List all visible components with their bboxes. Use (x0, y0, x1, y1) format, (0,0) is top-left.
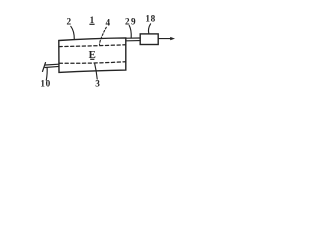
arrow line (158, 38, 171, 40)
leader 29 (129, 25, 131, 37)
svg-text:2: 2 (67, 17, 72, 27)
upper level dashed line (59, 45, 126, 47)
svg-text:18: 18 (145, 13, 155, 23)
svg-text:3: 3 (95, 79, 100, 89)
leader 3 (95, 64, 98, 79)
arrow head (170, 37, 175, 40)
outlet pipe lower line (126, 40, 140, 42)
outlet pipe upper line (126, 37, 140, 39)
lower level dashed line (59, 62, 125, 64)
leader 18 (148, 24, 150, 34)
leader 10 (45, 68, 48, 80)
tank body (vessel E) (59, 38, 126, 73)
box 18 (140, 34, 158, 45)
leader 2 (71, 26, 75, 39)
inlet pipe upper line (45, 63, 59, 66)
svg-text:29: 29 (125, 16, 137, 26)
svg-text:10: 10 (40, 79, 50, 89)
inlet pipe lower line (45, 66, 59, 67)
inlet flange (43, 63, 46, 72)
svg-text:4: 4 (106, 18, 111, 28)
leader 4 dashed (100, 27, 107, 44)
